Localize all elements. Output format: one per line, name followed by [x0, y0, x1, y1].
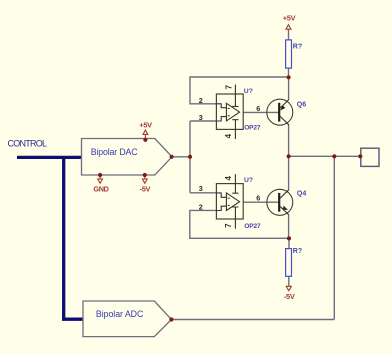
- svg-text:U?: U?: [244, 177, 253, 184]
- svg-text:6: 6: [256, 104, 260, 113]
- svg-text:2: 2: [199, 202, 203, 211]
- svg-text:OP27: OP27: [244, 223, 261, 230]
- svg-text:+5V: +5V: [139, 120, 152, 129]
- svg-text:Bipolar DAC: Bipolar DAC: [91, 147, 139, 157]
- svg-text:7: 7: [225, 85, 234, 90]
- svg-text:4: 4: [224, 133, 233, 138]
- svg-text:Q6: Q6: [297, 101, 306, 108]
- svg-text:R?: R?: [293, 44, 302, 51]
- svg-text:2: 2: [199, 96, 203, 105]
- svg-text:-5V: -5V: [140, 184, 151, 193]
- svg-text:GND: GND: [93, 184, 108, 193]
- svg-text:6: 6: [256, 193, 260, 202]
- svg-text:Bipolar ADC: Bipolar ADC: [96, 309, 144, 319]
- svg-text:CONTROL: CONTROL: [8, 139, 47, 149]
- svg-text:4: 4: [224, 176, 233, 181]
- svg-text:+5V: +5V: [283, 14, 296, 23]
- svg-text:3: 3: [199, 184, 203, 193]
- svg-text:U?: U?: [244, 88, 253, 95]
- svg-text:Q4: Q4: [297, 191, 306, 198]
- svg-text:7: 7: [224, 223, 233, 228]
- svg-text:OP27: OP27: [244, 125, 261, 132]
- svg-text:R?: R?: [293, 248, 302, 255]
- svg-text:3: 3: [199, 113, 203, 122]
- svg-text:-5V: -5V: [284, 292, 295, 301]
